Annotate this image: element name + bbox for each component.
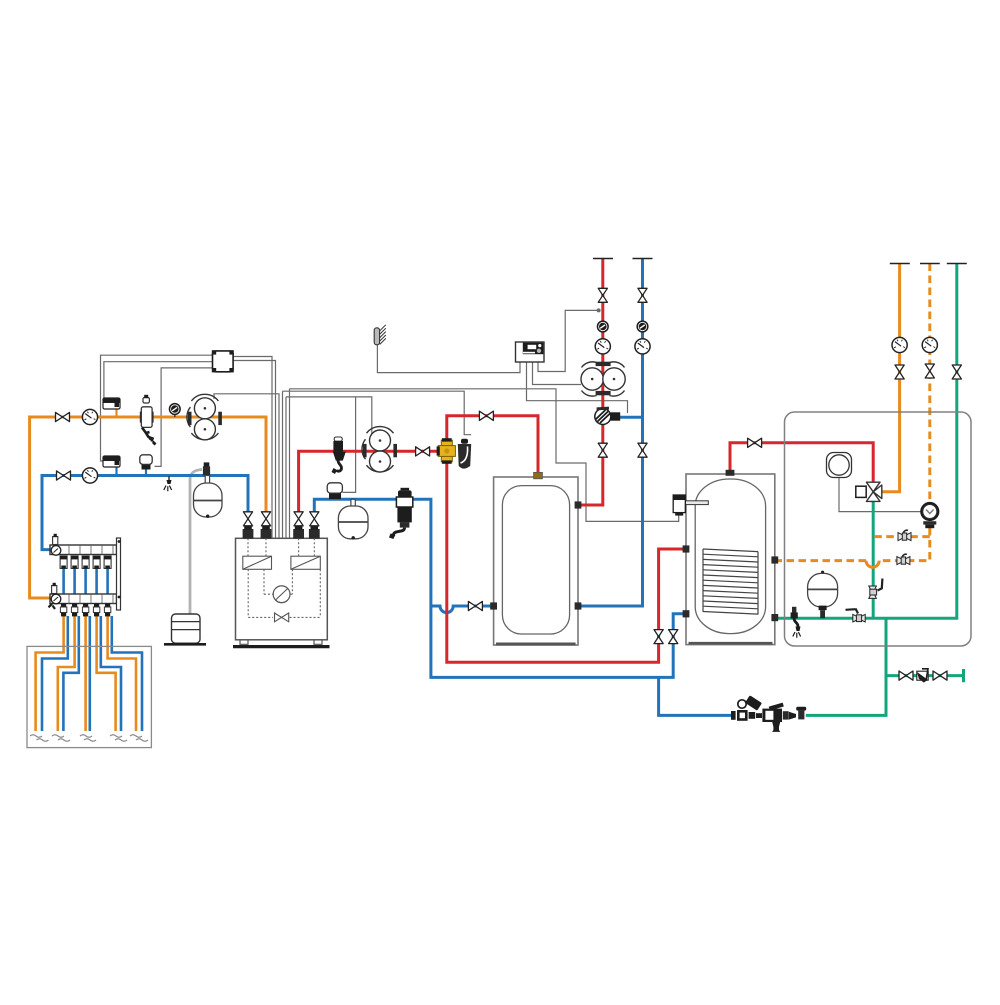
boiler internal pump xyxy=(273,586,290,603)
DHW expansion vessel E3 xyxy=(808,571,838,619)
valve on red DHW top outlet xyxy=(748,438,762,447)
blue stub to mixing valve M1 xyxy=(620,416,643,419)
DHW tank thermostat sensor xyxy=(673,495,708,516)
thermostat T2 xyxy=(115,467,117,476)
condensate drain pipe xyxy=(190,470,202,615)
orange dashed recirculation riser xyxy=(928,264,931,504)
underfloor manifold xyxy=(49,534,121,617)
boiler heat exchanger 1 xyxy=(243,556,272,569)
manifold vent and drain bottom bar xyxy=(52,586,57,594)
red riser from yellow valve to buffer top xyxy=(447,416,538,485)
valve on red riser to buffer top xyxy=(479,411,493,420)
small gauge blue riser xyxy=(637,321,648,332)
valve on blue heating riser xyxy=(638,288,647,302)
buffer port fittings xyxy=(534,472,543,478)
buffer tank xyxy=(490,472,581,645)
blue bottom return DHW coil line xyxy=(431,606,684,677)
thermostat T1 xyxy=(115,409,117,417)
controller C1 xyxy=(212,350,234,372)
outdoor sensor xyxy=(374,325,386,345)
manifold loop pipe 4 blue xyxy=(101,616,121,731)
manifold loop pipe 2 blue xyxy=(63,616,78,731)
floor loop wavy marks xyxy=(30,735,148,742)
valve on red riser below mixing valve xyxy=(598,443,607,457)
blue heating return riser to buffer xyxy=(581,259,643,607)
orange mixed outlet riser xyxy=(882,264,900,492)
shutoff valve on orange supply xyxy=(56,412,70,421)
manifold loop pipe 2 orange xyxy=(58,616,75,731)
gauge on recirculation riser xyxy=(922,337,937,352)
zone valve V1 on blue xyxy=(140,455,152,476)
green drop to fill group xyxy=(806,618,886,715)
boiler port fittings xyxy=(243,529,320,539)
wire bundle to laddomat pump motor xyxy=(283,391,472,538)
valve on red coil feed xyxy=(654,630,663,644)
underfloor heating zone box xyxy=(27,646,151,747)
boiler heat exchanger 2 xyxy=(291,556,320,569)
wire controller1 to boiler bundle a xyxy=(233,357,272,539)
fan coil unit xyxy=(827,453,852,478)
wire controller1 to thermostat T1 xyxy=(104,362,233,405)
orange supply heat-pump circuit to boiler xyxy=(30,417,266,598)
wire controller1 to thermostat T2 xyxy=(101,355,234,461)
valve on blue riser below mixing valve xyxy=(638,443,647,457)
sensor dot on red riser xyxy=(597,308,601,312)
boiler internal dotted piping xyxy=(248,538,320,617)
small gauge on orange xyxy=(169,403,180,417)
wire controller2 to mixing valve M1 xyxy=(527,362,628,413)
ball valve on recirculation stub xyxy=(898,530,911,540)
large gauge blue riser xyxy=(635,339,650,354)
red boiler supply to yellow valve xyxy=(299,451,440,513)
boiler internal bypass valve xyxy=(275,613,289,622)
boiler isolation valve port4 xyxy=(310,512,319,526)
controller C2 xyxy=(516,342,545,362)
valve on red heating riser xyxy=(598,288,607,302)
thermostatic mixer valve xyxy=(856,482,882,501)
ball valve with lever on green line xyxy=(846,609,866,623)
valve on cold water riser xyxy=(952,365,961,379)
red heating riser from buffer xyxy=(581,259,603,506)
air separator S2 on blue xyxy=(389,488,413,539)
expansion vessel E1 xyxy=(194,476,223,518)
blue return line boiler to manifold xyxy=(42,476,248,550)
manifold loop pipe 1 orange xyxy=(36,616,64,731)
valve on recirculation riser xyxy=(925,364,934,378)
blue boiler port4 line to buffer via bridge xyxy=(314,499,492,612)
cold water strainer xyxy=(917,669,928,683)
condensate pump xyxy=(164,614,206,644)
flow meters xyxy=(60,556,111,568)
boiler isolation valve port2 xyxy=(261,512,270,526)
safety relief discharge on blue xyxy=(164,476,172,491)
wire controller2 to twin pump P3 xyxy=(533,362,582,385)
green mixer cold feed xyxy=(872,502,875,619)
blue fill branch to backflow preventer xyxy=(659,677,731,715)
boiler isolation valve port1 xyxy=(243,512,252,526)
shutoff valve on blue return xyxy=(57,471,71,480)
cold water inlet shutoff valve xyxy=(899,671,913,680)
manifold loop pipe 3 blue xyxy=(89,616,92,731)
orange dashed bridge arc xyxy=(866,561,879,568)
orange dashed recirculation lower run with bridge xyxy=(776,528,930,561)
boiler xyxy=(233,527,330,647)
air-dirt separator on orange xyxy=(140,395,157,446)
DHW coil xyxy=(703,549,758,614)
manifold loop pipe 1 blue xyxy=(42,616,68,731)
green cold water inlet group xyxy=(886,669,964,682)
pump P1 on orange xyxy=(187,394,222,439)
DHW port fittings xyxy=(726,470,735,476)
motorized safety valve on red xyxy=(332,437,346,474)
gauge on orange mixed riser xyxy=(892,337,907,352)
ball valve with lever on green mixer feed xyxy=(869,579,883,599)
cold water inlet second valve xyxy=(933,671,947,680)
loop valves under bottom bar xyxy=(61,604,110,617)
DHW tank xyxy=(683,470,779,645)
pump P2 on red xyxy=(362,427,397,472)
twin pump P3 xyxy=(581,362,625,396)
red drop from yellow valve to DHW coil xyxy=(447,451,684,662)
boiler isolation valve port3 xyxy=(294,512,303,526)
pipe continuation ticks at top xyxy=(593,259,967,264)
expansion vessel E2 xyxy=(338,499,368,539)
wire controller1 to zone valve V1 xyxy=(155,368,214,467)
wire fan coil to recirculation pump xyxy=(839,478,921,512)
manifold loop pipe 4 orange xyxy=(97,616,116,731)
right zone enclosure xyxy=(785,412,972,646)
temperature gauge on blue return xyxy=(82,468,97,483)
manifold loop pipe 3 orange xyxy=(84,616,87,731)
wire controller1 to boiler bundle b xyxy=(233,361,276,539)
green cold water main riser xyxy=(776,264,957,619)
zone valve V2 on blue xyxy=(327,483,342,499)
recirculation pump xyxy=(920,502,939,528)
temperature gauge on orange supply xyxy=(82,409,97,424)
wire pump P1 to boiler bundle xyxy=(214,394,279,538)
manifold air vent and gauge top bar xyxy=(53,537,58,545)
valve on blue coil return xyxy=(669,630,678,644)
manifold loop pipe 5 orange xyxy=(108,616,136,731)
safety relief group on green xyxy=(791,607,801,638)
valve on red before yellow valve xyxy=(416,447,430,456)
orange dashed tap stub xyxy=(872,535,930,538)
large gauge red riser xyxy=(595,339,610,354)
red DHW tank top to mixer xyxy=(730,443,873,482)
backflow preventer filling group xyxy=(731,695,806,732)
mixing valve M1 xyxy=(595,407,620,425)
wire controller2 to flow sensor on red riser xyxy=(538,310,598,371)
ball valve on recirculation line xyxy=(897,554,910,564)
wire bundle to DHW tank sensor xyxy=(290,389,679,538)
expansion vessel connection fitting xyxy=(203,462,210,475)
valve on orange mixed riser xyxy=(895,365,904,379)
yellow thermic valve xyxy=(437,438,456,464)
manifold riser pipes between bars xyxy=(64,568,108,595)
valve on blue at buffer left xyxy=(468,601,482,610)
manifold loop pipe 5 blue xyxy=(112,616,142,731)
wire bundle to pump P2 and zone valve V2 xyxy=(286,397,372,538)
small gauge red riser xyxy=(597,321,608,332)
laddomat pump on yellow valve xyxy=(458,439,471,469)
wire outdoor sensor to controller2 xyxy=(377,344,520,372)
